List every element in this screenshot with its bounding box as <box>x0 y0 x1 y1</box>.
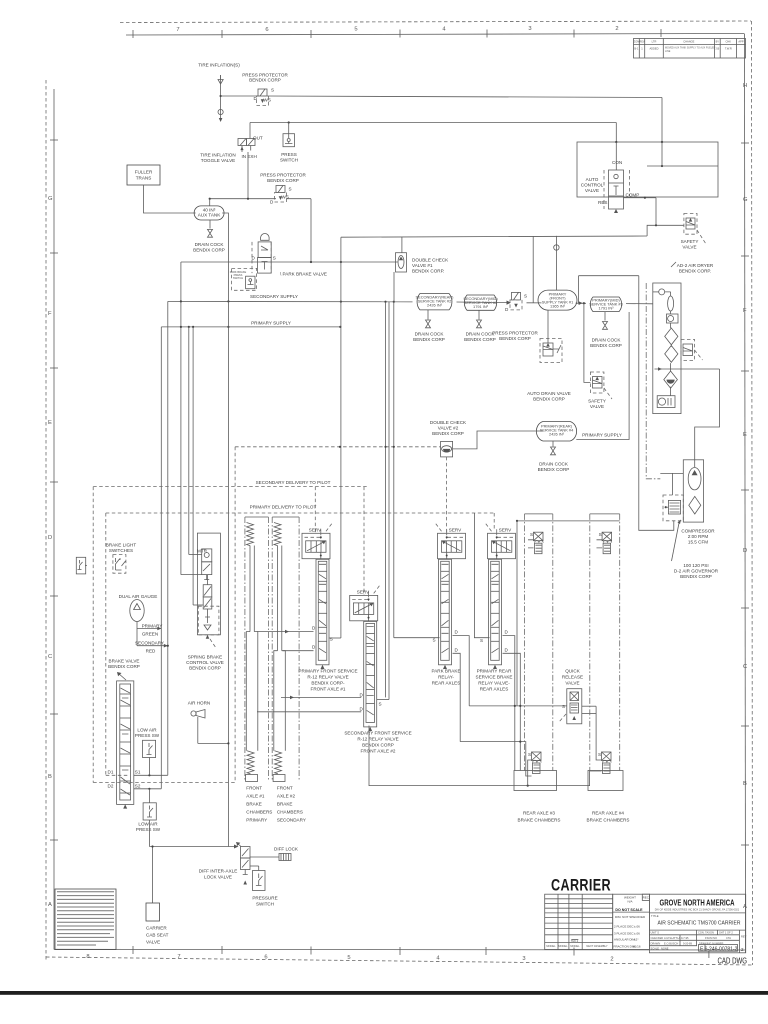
wire cab seat valve drop x152.5 <box>152 847 154 904</box>
QRV right wires <box>582 705 596 707</box>
tank pill PRIMARY(MID) SERVICE TANK #3 <box>589 297 623 312</box>
relay valve 3 PARK BRAKE RELAY (mirrored) <box>433 523 466 669</box>
svg-text:2426 IN³: 2426 IN³ <box>549 432 565 437</box>
press protector valve 1 <box>254 88 275 106</box>
svg-text:DRAIN COCK: DRAIN COCK <box>195 242 225 247</box>
svg-text:1365 IN³: 1365 IN³ <box>550 304 566 309</box>
svg-text:RED: RED <box>146 649 156 654</box>
svg-text:CARRIER: CARRIER <box>551 877 611 895</box>
svg-text:6: 6 <box>265 27 268 33</box>
safety valve 1 <box>684 214 706 245</box>
svg-text:BENDIX CORP.: BENDIX CORP. <box>412 269 444 274</box>
svg-text:NONE: NONE <box>661 947 669 951</box>
svg-text:FULLER: FULLER <box>135 170 153 175</box>
wire x180.9 down from park line <box>180 262 182 575</box>
svg-text:1791 IN³: 1791 IN³ <box>599 306 615 311</box>
wire y846.5 to diff lock <box>149 846 237 848</box>
svg-text:D1: D1 <box>108 770 114 775</box>
node primary taps <box>180 326 182 328</box>
svg-text:BENDIX CORP: BENDIX CORP <box>249 78 281 83</box>
node S1 low air sw tap <box>148 774 150 776</box>
svg-text:E: E <box>48 420 52 426</box>
wire relay1 S to x340.9 <box>329 637 341 639</box>
primary supply wire tank4 to x629 <box>576 312 629 440</box>
wire relay2 D1 feed y697.4 <box>281 696 361 698</box>
svg-text:DIM. NOT SPECIFIED: DIM. NOT SPECIFIED <box>615 915 646 919</box>
rear chamber box 3 <box>514 771 557 791</box>
svg-text:SERV: SERV <box>309 528 322 533</box>
svg-text:CTA: CTA <box>726 936 731 940</box>
dryer inlet circle <box>659 289 665 295</box>
svg-text:CON. TAXON: CON. TAXON <box>698 931 714 935</box>
svg-text:BENDIX CORP.: BENDIX CORP. <box>679 269 711 274</box>
ACV internal wire y166 <box>647 165 718 167</box>
svg-text:VALVE: VALVE <box>565 681 579 686</box>
dashed pilot DCV2 down to relay3 <box>446 457 448 533</box>
brake light switches box <box>113 555 126 574</box>
svg-text:REAR AXLE #3: REAR AXLE #3 <box>523 811 555 816</box>
long wire y122 toggle valve to ACV <box>250 122 616 124</box>
svg-text:SHT 1 OF 2: SHT 1 OF 2 <box>719 931 733 935</box>
svg-text:DRAIN COCK: DRAIN COCK <box>592 338 622 343</box>
svg-text:S2: S2 <box>135 784 141 789</box>
svg-text:CHAMBERS: CHAMBERS <box>277 810 303 815</box>
press switch component <box>283 134 295 147</box>
svg-text:LOW AIR: LOW AIR <box>137 728 157 733</box>
svg-text:SWITCH: SWITCH <box>280 158 298 163</box>
svg-text:SECONDARY FRONT SERVICE: SECONDARY FRONT SERVICE <box>344 731 411 736</box>
svg-text:±.06: ±.06 <box>634 931 640 935</box>
tire stem bottom arrowhead <box>219 118 223 122</box>
wire long y785.6 <box>369 726 602 786</box>
wire tank1 feed from header x556.4 <box>555 236 557 290</box>
wire comp corner down x656 <box>656 198 684 226</box>
relay valve 4 PRIMARY REAR SERVICE (mirrored) <box>480 523 516 669</box>
wire DCV1 to secondary bus <box>393 272 395 302</box>
svg-text:E: E <box>743 432 747 438</box>
svg-text:PRIMARY: PRIMARY <box>246 818 267 823</box>
dryer internal connectors <box>670 345 673 395</box>
SBCV outer box <box>197 533 220 635</box>
gauge wire primary arrow <box>137 628 161 630</box>
wire horn to x228.4 <box>198 742 229 744</box>
wire y705.9 to QRV <box>469 705 567 707</box>
node secondary taps <box>180 300 182 302</box>
svg-text:S: S <box>271 88 274 93</box>
svg-text:BRAKE LIGHT: BRAKE LIGHT <box>106 543 137 548</box>
wire into SBCV lower valve <box>193 604 203 606</box>
node toggle drop <box>247 198 249 200</box>
secondary supply bus y301.4 <box>168 300 413 302</box>
brake valve treadle arrow <box>118 673 126 680</box>
title block middle tolerance column <box>613 894 650 949</box>
rail1 top component <box>530 532 543 554</box>
svg-text:J.B: J.B <box>715 47 719 51</box>
svg-text:AIR HORN: AIR HORN <box>188 701 210 706</box>
svg-text:BRAKE VALVE: BRAKE VALVE <box>109 659 140 664</box>
svg-text:COMPRESSOR: COMPRESSOR <box>681 529 715 534</box>
node feeds <box>615 141 617 143</box>
zone letter labels right <box>743 83 748 910</box>
tank pill PRIMARY(REAR) SERVICE TANK #4 <box>536 422 576 442</box>
wire x188.8 down to SBCV <box>188 327 190 555</box>
dashed box2 left edge x105.8 <box>105 513 107 775</box>
svg-text:BRAKE: BRAKE <box>246 802 262 807</box>
rail1 bottom component <box>528 752 541 774</box>
svg-text:MTR: MTR <box>197 549 208 554</box>
svg-text:BRAKE CHAMBERS: BRAKE CHAMBERS <box>518 818 561 823</box>
svg-text:BRAKE CHAMBERS: BRAKE CHAMBERS <box>587 818 630 823</box>
svg-text:A.M.SLATTLA 9-7-95: A.M.SLATTLA 9-7-95 <box>664 936 689 940</box>
svg-text:SERVICE BRAKE: SERVICE BRAKE <box>476 675 513 680</box>
svg-text:PRESS SW: PRESS SW <box>136 827 161 832</box>
svg-text:BENDIX CORP: BENDIX CORP <box>538 467 570 472</box>
svg-text:H: H <box>743 83 747 89</box>
svg-text:B-1: B-1 <box>634 47 639 51</box>
svg-text:BENDIX CORP: BENDIX CORP <box>108 664 140 669</box>
svg-text:S: S <box>289 187 292 192</box>
svg-text:B: B <box>48 774 52 780</box>
tower2 dash-dot rails <box>272 517 299 782</box>
wire governor bottom line <box>639 276 674 531</box>
wire DCV1 drop x401.9 <box>401 237 403 253</box>
primary supply bus y326.9 <box>161 326 340 328</box>
svg-text:2: 2 <box>610 957 613 963</box>
svg-text:SERV: SERV <box>449 528 462 533</box>
wire from header down x533.2 to press protector <box>532 236 534 303</box>
dashed box2 bottom stub <box>106 774 128 776</box>
rail2 bottom component <box>598 752 611 774</box>
svg-text:SERV: SERV <box>499 528 512 533</box>
svg-text:SECONDARY SUPPLY: SECONDARY SUPPLY <box>250 294 298 299</box>
svg-text:N/A: N/A <box>627 900 632 904</box>
dual air gauge <box>130 600 144 646</box>
svg-text:PRIMARY SUPPLY: PRIMARY SUPPLY <box>582 433 622 438</box>
wire into SBCV top valve <box>189 554 202 556</box>
svg-text:MODEL: MODEL <box>546 944 556 948</box>
tower2 top spring <box>274 523 281 546</box>
svg-text:DUAL AIR GAUGE: DUAL AIR GAUGE <box>119 594 158 599</box>
drain cock under tank4 <box>552 441 554 447</box>
svg-text:CHAMBERS: CHAMBERS <box>246 810 272 815</box>
svg-text:CONTROL VALVE: CONTROL VALVE <box>186 660 224 665</box>
proprietary note box bottom left <box>55 889 116 950</box>
svg-text:PARK BRAKE: PARK BRAKE <box>431 669 460 674</box>
svg-text:ADDED: ADDED <box>649 47 658 51</box>
svg-text:BENDIX CORP-: BENDIX CORP- <box>311 681 345 686</box>
press protector valve 2 <box>270 186 292 205</box>
diff lock fitting <box>250 854 291 861</box>
dashed pilot drop to relay4 <box>493 513 495 529</box>
tower2 inner channel <box>274 546 286 751</box>
zone number labels bottom <box>86 954 613 963</box>
dryer diamond 3 filled <box>664 371 678 388</box>
wire x388.9 down <box>388 302 390 700</box>
dryer circle+box element <box>667 311 679 323</box>
tower1 bottom box <box>246 775 258 782</box>
wire relay4 D1 out <box>503 636 515 771</box>
zone number labels top <box>176 26 618 33</box>
svg-text:8: 8 <box>86 954 89 960</box>
svg-text:BENDIX CORP: BENDIX CORP <box>193 248 225 253</box>
svg-text:6-246-00781-2: 6-246-00781-2 <box>705 946 738 952</box>
wire toggle valve down to aux line <box>247 152 249 199</box>
auto control valve box <box>577 142 718 197</box>
svg-text:THK.2: THK.2 <box>571 939 579 943</box>
SBCV top valve <box>197 549 212 580</box>
svg-text:\ PARK BRAKE VALVE: \ PARK BRAKE VALVE <box>280 272 327 277</box>
tower2 lower spring chamber <box>275 751 282 774</box>
svg-text:RELAY VALVE-: RELAY VALVE- <box>478 681 510 686</box>
wire tank1 bottom to auto drain <box>547 310 549 343</box>
svg-text:BY: BY <box>716 40 720 44</box>
svg-text:LTR: LTR <box>652 40 657 44</box>
svg-text:B: B <box>743 781 747 787</box>
wire S2 <box>134 788 162 790</box>
svg-text:RES: RES <box>598 200 607 205</box>
dryer purge line y369 <box>655 368 720 370</box>
zone ticks left <box>50 140 58 840</box>
svg-text:BENDIX CORP: BENDIX CORP <box>499 336 531 341</box>
dryer vertical oval <box>668 296 674 311</box>
wire x228.4 air horn feed <box>227 301 229 846</box>
svg-text:VALVE: VALVE <box>585 188 599 193</box>
wire DCV2 east to tank4 <box>453 431 543 449</box>
svg-text:MODEL: MODEL <box>570 944 580 948</box>
black separator bar at page bottom <box>0 991 768 995</box>
svg-text:RELEASE: RELEASE <box>562 675 583 680</box>
svg-text:BENDIX CORP: BENDIX CORP <box>189 666 221 671</box>
svg-text:GREEN: GREEN <box>142 632 158 637</box>
aux tank header wire y198.7 <box>210 198 276 200</box>
svg-text:BENDIX CORP: BENDIX CORP <box>413 337 445 342</box>
wire relay4 D2 out <box>503 653 521 770</box>
dashed wire DCV2 west y446.5 <box>235 446 441 448</box>
svg-text:DOUBLE CHECK: DOUBLE CHECK <box>412 258 449 263</box>
drain cock under mid tank2 <box>478 310 480 319</box>
svg-text:PRESSURE: PRESSURE <box>252 896 277 901</box>
svg-text:SWITCH: SWITCH <box>233 276 243 280</box>
outer dashed box bottom <box>93 782 235 784</box>
wire rails top header y520.9 <box>517 520 620 522</box>
svg-text:7: 7 <box>176 27 179 33</box>
svg-text:CARRIER: CARRIER <box>146 926 167 931</box>
svg-text:COMP: COMP <box>626 193 640 198</box>
svg-text:RELAY-: RELAY- <box>438 675 454 680</box>
svg-text:REC: REC <box>643 895 650 899</box>
svg-text:SPRING BRAKE: SPRING BRAKE <box>188 655 222 660</box>
park brake line y262 <box>181 261 398 263</box>
svg-text:AUX TANK: AUX TANK <box>198 213 221 218</box>
svg-text:VALVE: VALVE <box>682 245 696 250</box>
svg-text:BENDIX CORP: BENDIX CORP <box>267 178 299 183</box>
svg-text:F: F <box>743 308 747 314</box>
zone ticks right <box>741 143 749 845</box>
svg-text:NEXT ASSEMBLY: NEXT ASSEMBLY <box>586 944 608 948</box>
svg-text:G: G <box>48 196 53 202</box>
svg-text:BENDIX CORP: BENDIX CORP <box>464 337 496 342</box>
wire COMP out <box>624 197 657 199</box>
governor assembly <box>660 473 683 520</box>
svg-text:REAR AXLES: REAR AXLES <box>480 687 509 692</box>
rail2 <box>590 514 620 771</box>
svg-text:FRONT: FRONT <box>277 786 293 791</box>
svg-text:CONTROL: CONTROL <box>581 183 604 188</box>
svg-text:AXLE #1: AXLE #1 <box>246 794 265 799</box>
wire relay3 S feed <box>394 637 440 639</box>
svg-text:IN EXH: IN EXH <box>242 154 257 159</box>
park brake valve knob <box>261 233 270 240</box>
svg-text:DRAWN: DRAWN <box>651 941 661 945</box>
svg-text:G: G <box>743 197 748 203</box>
svg-text:SWITCHES: SWITCHES <box>109 548 133 553</box>
tower1 lower spring chamber <box>247 751 254 774</box>
wire top components feeds <box>528 540 602 548</box>
wire safety header from x647 <box>647 225 656 236</box>
rail2 top component <box>599 532 612 554</box>
revision table top right <box>634 39 746 59</box>
FULLER TRANS box <box>127 165 160 185</box>
wire relay2 S to x389 <box>377 699 389 701</box>
aux tank pill <box>194 206 224 220</box>
SBCV lower valve <box>203 575 212 609</box>
svg-text:PRESS: PRESS <box>281 152 297 157</box>
svg-text:T.W.R: T.W.R <box>725 47 732 51</box>
tank pill SECONDARY(REAR) SERVICE TANK #2 <box>416 294 455 310</box>
ACV valve element <box>604 170 630 213</box>
wire y741.6 <box>460 742 531 776</box>
CARRIER CAB SEAT VALVE box <box>146 903 160 921</box>
wire dryer to compressor top <box>695 369 720 467</box>
tire inflation stem wire <box>220 75 222 120</box>
svg-text:AIR SCHEMATIC TMS700 CARRIER: AIR SCHEMATIC TMS700 CARRIER <box>658 920 741 926</box>
svg-text:±.06: ±.06 <box>634 924 640 928</box>
svg-text:UNIT S: UNIT S <box>651 931 660 935</box>
svg-text:CHANGE: CHANGE <box>683 40 694 44</box>
wire tank row to safety valve 2 <box>584 303 591 382</box>
tank row bus y303.9 <box>457 301 507 304</box>
svg-text:AUTO: AUTO <box>586 177 599 182</box>
park brake press switch dashed box <box>230 268 257 290</box>
svg-text:PRIMARY REAR: PRIMARY REAR <box>477 669 512 674</box>
svg-text:QUICK: QUICK <box>565 669 580 674</box>
zone ticks top <box>133 29 661 38</box>
svg-text:DO NOT SCALE: DO NOT SCALE <box>615 908 643 912</box>
svg-text:SWITCH: SWITCH <box>256 902 274 907</box>
node aux tank tap <box>209 198 211 200</box>
svg-text:PRESS PROTECTOR: PRESS PROTECTOR <box>260 173 306 178</box>
svg-text:±1/16: ±1/16 <box>633 945 641 949</box>
svg-text:VALVE: VALVE <box>590 404 604 409</box>
gauge wire secondary arrow <box>137 645 168 647</box>
dashed pilot drop to relay1 <box>314 487 316 534</box>
dryer diamond 2 <box>665 346 678 363</box>
svg-text:TITLE: TITLE <box>651 914 659 918</box>
tire inflation top connector symbol <box>218 75 223 84</box>
svg-text:D: D <box>48 535 52 541</box>
svg-text:DRAIN COCK: DRAIN COCK <box>415 332 445 337</box>
svg-text:CHECKED: CHECKED <box>651 936 664 940</box>
title block parts-list table left <box>545 894 613 949</box>
svg-text:DRAIN COCK: DRAIN COCK <box>539 462 569 467</box>
svg-text:TIRE INFLATION: TIRE INFLATION <box>200 153 235 158</box>
tower2 bottom box <box>273 775 285 782</box>
svg-text:VALVE #1: VALVE #1 <box>412 263 433 268</box>
svg-text:E.O.BUSCH: E.O.BUSCH <box>664 941 678 945</box>
tire stem check symbol <box>218 109 223 114</box>
outer dashed box left edge <box>92 487 94 783</box>
svg-text:1791 IN³: 1791 IN³ <box>473 304 489 309</box>
tower1 dash-dot rails <box>245 517 269 782</box>
title block right company section <box>649 894 746 953</box>
svg-text:APP: APP <box>738 40 743 44</box>
svg-text:DRAIN COCK: DRAIN COCK <box>466 332 496 337</box>
svg-text:SECONDARY: SECONDARY <box>135 641 164 646</box>
svg-text:PRIMARY DELIVERY TO PILOT: PRIMARY DELIVERY TO PILOT <box>250 505 317 510</box>
svg-text:S: S <box>562 704 565 709</box>
wire into valve top <box>615 142 617 170</box>
governor feed dash-dot vertical x646.2 <box>646 283 660 479</box>
wire fuller trans to aux tank <box>144 185 196 213</box>
svg-text:100 120 PSI: 100 120 PSI <box>683 563 708 568</box>
svg-text:S: S <box>524 294 527 299</box>
governor tap component right of dryer <box>681 339 703 360</box>
wire relay3 D1 out <box>453 636 470 706</box>
svg-text:S: S <box>480 638 483 643</box>
svg-text:D2: D2 <box>108 784 114 789</box>
wire aux tank up <box>209 199 211 206</box>
dashed primary delivery line y513 <box>106 512 494 514</box>
wire x394 long down <box>393 302 395 638</box>
long supply wire y96 to auto control valve <box>267 96 662 98</box>
svg-text:REAR AXLE #4: REAR AXLE #4 <box>592 811 624 816</box>
svg-text:AXLE #2: AXLE #2 <box>277 794 296 799</box>
tower1 inner channel <box>246 546 257 751</box>
svg-text:CAD DWG: CAD DWG <box>718 956 748 966</box>
wire corner down x311 to park brake line <box>310 199 312 262</box>
svg-text:SERV: SERV <box>357 590 370 595</box>
svg-text:R-12 RELAY VALVE: R-12 RELAY VALVE <box>307 675 348 680</box>
header wire y236.5 <box>341 236 647 237</box>
wire primary corner down x161.3 <box>160 327 162 789</box>
rear chamber box 4 <box>588 771 623 791</box>
svg-text:PRIMARY SUPPLY: PRIMARY SUPPLY <box>251 321 291 326</box>
wire x527.7 up to comp E <box>528 760 532 786</box>
svg-text:C: C <box>743 664 747 670</box>
svg-text:BENDIX CORP: BENDIX CORP <box>432 431 464 436</box>
safety valve 2 <box>590 372 612 399</box>
tank pill SECONDARY(MID) SERVICE TANK #2 <box>463 295 498 310</box>
wire relay1 D2 feed y650.7 <box>283 650 314 652</box>
svg-text:TIRE INFLATION(S): TIRE INFLATION(S) <box>198 63 240 68</box>
svg-text:7: 7 <box>177 954 180 960</box>
dashed secondary delivery line y486.6 <box>93 486 368 488</box>
svg-text:2426 IN³: 2426 IN³ <box>427 303 443 308</box>
brake valve assembly <box>117 681 134 809</box>
wire relay4 S feed <box>474 513 489 638</box>
svg-text:AUTO DRAIN VALVE: AUTO DRAIN VALVE <box>527 391 571 396</box>
wire relay2 D2 feed y711.8 <box>257 711 361 713</box>
svg-text:D: D <box>743 548 747 554</box>
svg-text:DIFF INTER-AXLE: DIFF INTER-AXLE <box>199 869 238 874</box>
svg-text:GROVE NORTH AMERICA: GROVE NORTH AMERICA <box>660 898 735 908</box>
svg-text:PRESS SW: PRESS SW <box>135 733 160 738</box>
svg-text:SAFETY: SAFETY <box>681 239 699 244</box>
small press switch far left <box>76 557 87 574</box>
zone letter labels left <box>48 196 53 908</box>
wire corner down into ACV at x616 <box>615 123 617 143</box>
svg-text:S1: S1 <box>135 770 141 775</box>
